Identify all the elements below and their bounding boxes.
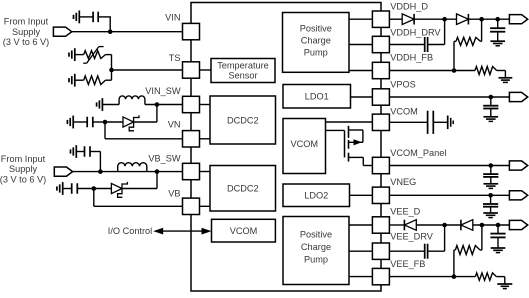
- svg-text:DCDC2: DCDC2: [227, 184, 259, 194]
- svg-text:Positive: Positive: [300, 229, 332, 239]
- svg-text:(3 V to 6 V): (3 V to 6 V): [0, 175, 46, 185]
- svg-text:VCOM: VCOM: [390, 107, 418, 117]
- svg-text:Pump: Pump: [304, 254, 328, 264]
- svg-text:DCDC2: DCDC2: [227, 116, 259, 126]
- svg-text:LDO1: LDO1: [305, 92, 329, 102]
- svg-text:VPOS: VPOS: [390, 80, 416, 90]
- svg-text:VIN_SW: VIN_SW: [145, 86, 181, 96]
- svg-text:VDDH_FB: VDDH_FB: [390, 53, 433, 63]
- svg-text:VEE_FB: VEE_FB: [390, 259, 425, 269]
- svg-text:Temperature: Temperature: [217, 60, 269, 70]
- svg-text:TS: TS: [169, 53, 181, 63]
- svg-text:Charge: Charge: [301, 36, 331, 46]
- svg-text:(3 V to 6 V): (3 V to 6 V): [3, 37, 49, 47]
- svg-text:VEE_DRV: VEE_DRV: [390, 232, 434, 242]
- svg-text:From Input: From Input: [4, 16, 49, 26]
- svg-text:VNEG: VNEG: [390, 177, 416, 187]
- svg-text:VEE_D: VEE_D: [390, 206, 420, 216]
- svg-text:VB: VB: [168, 188, 180, 198]
- svg-text:VDDH_D: VDDH_D: [390, 2, 428, 12]
- svg-text:VDDH_DRV: VDDH_DRV: [390, 28, 441, 38]
- svg-text:Supply: Supply: [12, 27, 40, 37]
- svg-text:VCOM_Panel: VCOM_Panel: [390, 148, 446, 158]
- svg-text:VB_SW: VB_SW: [148, 154, 180, 164]
- svg-text:VIN: VIN: [165, 12, 180, 22]
- svg-text:LDO2: LDO2: [304, 191, 328, 201]
- svg-text:Positive: Positive: [300, 23, 332, 33]
- svg-text:VN: VN: [168, 120, 181, 130]
- svg-text:VCOM: VCOM: [291, 139, 319, 149]
- svg-text:Pump: Pump: [304, 47, 328, 57]
- svg-text:I/O Control: I/O Control: [108, 226, 152, 236]
- svg-text:VCOM: VCOM: [230, 226, 258, 236]
- svg-text:Sensor: Sensor: [228, 70, 257, 80]
- svg-text:Charge: Charge: [301, 242, 331, 252]
- svg-text:From Input: From Input: [1, 154, 46, 164]
- svg-text:Supply: Supply: [9, 164, 37, 174]
